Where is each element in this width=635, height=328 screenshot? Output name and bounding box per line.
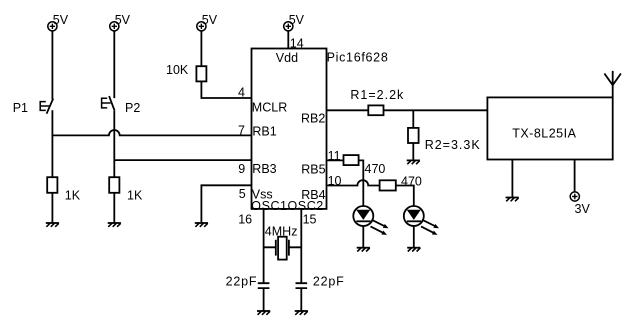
wire RB5 pin 11 to 470 resistor bbox=[327, 159, 344, 161]
wire 470 to LED1 bbox=[359, 160, 364, 206]
svg-text:5V: 5V bbox=[289, 13, 305, 27]
svg-text:22pF: 22pF bbox=[313, 274, 345, 288]
svg-text:5V: 5V bbox=[53, 13, 69, 27]
ground (under 1K left) bbox=[46, 223, 59, 227]
svg-text:7: 7 bbox=[238, 124, 245, 138]
wire RB4 pin 10 to 470 (hop over LED1 wire) bbox=[327, 180, 380, 185]
svg-text:RB4: RB4 bbox=[301, 188, 325, 202]
wire R1 to TX module bbox=[384, 109, 488, 111]
power 5V (Vdd branch) bbox=[284, 22, 293, 31]
ground (Vss) bbox=[195, 223, 208, 227]
wire OSC2 pin 15 down bbox=[300, 209, 302, 283]
svg-text:P2: P2 bbox=[125, 101, 140, 115]
ground (under 1K right) bbox=[108, 223, 121, 227]
svg-text:P1: P1 bbox=[13, 101, 28, 115]
LED D1 bbox=[353, 206, 388, 235]
pushbutton P2 bbox=[102, 96, 141, 115]
svg-text:1K: 1K bbox=[127, 188, 143, 202]
svg-text:16: 16 bbox=[238, 213, 252, 227]
svg-text:5V: 5V bbox=[115, 13, 131, 27]
TX module TX-8L25IA bbox=[487, 97, 612, 159]
wire 5V to P1 bbox=[51, 31, 53, 100]
ground (LED2) bbox=[407, 248, 420, 252]
wire node B to RB3 bbox=[114, 159, 251, 161]
ground (R2) bbox=[407, 160, 420, 164]
wire 10K to MCLR pin 4 bbox=[201, 81, 251, 98]
antenna bbox=[604, 71, 621, 98]
wire LED2 to ground bbox=[413, 226, 415, 248]
wire LED1 to ground bbox=[362, 226, 364, 248]
power 5V (10K branch) bbox=[197, 22, 206, 31]
ground (cap left) bbox=[257, 311, 270, 315]
svg-text:9: 9 bbox=[238, 162, 245, 176]
svg-text:22pF: 22pF bbox=[226, 274, 258, 288]
svg-text:RB2: RB2 bbox=[301, 112, 325, 126]
wire 5V to 10K bbox=[200, 31, 202, 66]
resistor R2 bbox=[408, 128, 419, 143]
svg-text:4: 4 bbox=[238, 86, 245, 100]
LED D2 bbox=[404, 206, 439, 235]
svg-text:RB3: RB3 bbox=[252, 162, 276, 176]
IC U1 Pic16f628 body bbox=[252, 49, 327, 209]
svg-text:RB1: RB1 bbox=[252, 125, 276, 139]
wire TX pin to ground bbox=[511, 160, 513, 198]
resistor 470 (RB4) bbox=[380, 180, 396, 190]
svg-text:5: 5 bbox=[239, 187, 246, 201]
wire OSC1 pin 16 down bbox=[263, 209, 265, 283]
svg-text:MCLR: MCLR bbox=[252, 100, 287, 114]
resistor 1K (right) bbox=[109, 177, 119, 193]
pushbutton P1 bbox=[13, 99, 54, 116]
wire 5V to Vdd pin 14 bbox=[287, 31, 289, 49]
wire Vss pin 5 to ground bbox=[201, 185, 251, 223]
wire cap left to ground bbox=[263, 288, 265, 311]
capacitor 22pF (right) bbox=[296, 274, 345, 288]
power 5V (P1 branch) bbox=[48, 22, 57, 31]
svg-text:3V: 3V bbox=[575, 202, 591, 216]
svg-text:470: 470 bbox=[401, 175, 422, 189]
svg-text:R1=2.2k: R1=2.2k bbox=[350, 88, 404, 102]
svg-text:Pic16f628: Pic16f628 bbox=[327, 51, 389, 65]
wire 5V to P2 bbox=[113, 31, 115, 98]
wire 1K left to ground bbox=[51, 193, 53, 223]
resistor 1K (left) bbox=[47, 177, 57, 193]
svg-text:5V: 5V bbox=[202, 13, 218, 27]
wire P2 to node B bbox=[113, 111, 115, 178]
wire P1 to node A bbox=[51, 110, 53, 177]
power 3V bbox=[570, 192, 579, 201]
svg-text:Vdd: Vdd bbox=[276, 51, 298, 65]
ground (TX) bbox=[506, 198, 519, 202]
svg-text:470: 470 bbox=[365, 162, 386, 176]
resistor 470 (RB5) bbox=[344, 155, 359, 165]
wire R2 to ground bbox=[412, 143, 414, 160]
wire TX pin to 3V bbox=[574, 160, 576, 192]
power 5V (P2 branch) bbox=[110, 22, 119, 31]
svg-text:15: 15 bbox=[303, 213, 317, 227]
wire 470 to LED2 bbox=[396, 186, 414, 207]
resistor R1 bbox=[368, 105, 383, 115]
wire RB2 to R1 bbox=[327, 109, 369, 111]
svg-text:10K: 10K bbox=[166, 63, 189, 77]
wire 1K right to ground bbox=[113, 193, 115, 223]
wire node A to RB1 (hop over P2 wire) bbox=[52, 130, 251, 135]
crystal X1 4MHz bbox=[264, 225, 302, 260]
wire cap right to ground bbox=[300, 288, 302, 311]
svg-text:RB5: RB5 bbox=[301, 162, 325, 176]
resistor 10K bbox=[196, 66, 206, 81]
svg-text:R2=3.3K: R2=3.3K bbox=[425, 138, 481, 152]
ground (LED1) bbox=[357, 248, 370, 252]
wire node to R2 bbox=[412, 110, 414, 128]
ground (cap right) bbox=[295, 311, 308, 315]
svg-text:1K: 1K bbox=[65, 188, 81, 202]
capacitor 22pF (left) bbox=[226, 274, 270, 288]
svg-text:TX-8L25IA: TX-8L25IA bbox=[512, 127, 576, 141]
